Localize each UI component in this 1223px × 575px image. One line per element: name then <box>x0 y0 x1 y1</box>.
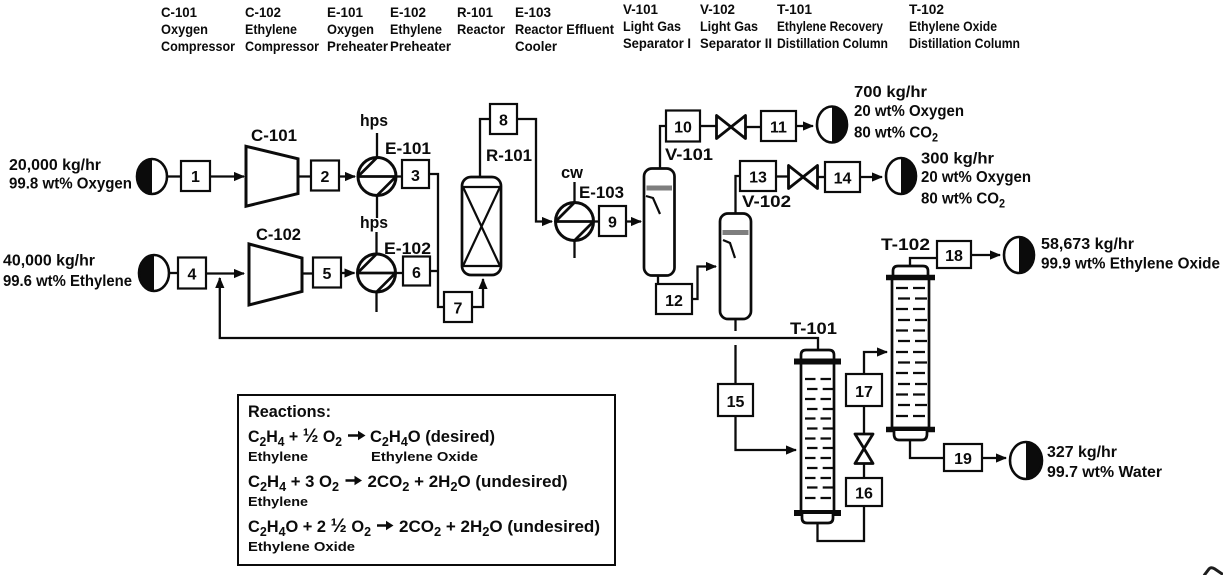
product stream circle 14 <box>886 158 916 194</box>
svg-text:Separator II: Separator II <box>700 35 772 51</box>
svg-text:cw: cw <box>561 164 583 182</box>
wire E-102 to box 6 <box>396 272 404 274</box>
heat exchanger E-103 <box>556 182 625 258</box>
svg-text:V-102: V-102 <box>742 193 791 211</box>
svg-text:R-101: R-101 <box>486 147 532 165</box>
wire box 4 to C-102 with arrow <box>206 272 244 274</box>
stream box 7 <box>444 292 472 322</box>
svg-text:Distillation Column: Distillation Column <box>909 35 1020 51</box>
heat exchanger E-102 <box>358 232 432 312</box>
wire box 14 to product circle with arrow <box>860 176 882 178</box>
wire box 6 to mix point <box>430 270 438 272</box>
product stream circle 18 <box>1004 237 1034 273</box>
svg-text:Light Gas: Light Gas <box>623 18 681 34</box>
heat exchanger E-101 <box>358 133 431 218</box>
svg-text:C-101: C-101 <box>251 127 297 145</box>
svg-text:Compressor: Compressor <box>161 38 235 54</box>
stream box 2 <box>311 161 339 191</box>
svg-text:99.8 wt% Oxygen: 99.8 wt% Oxygen <box>9 176 132 193</box>
svg-text:Preheater: Preheater <box>327 38 389 54</box>
wire feed circle to box 1 <box>167 175 181 177</box>
svg-text:20,000 kg/hr: 20,000 kg/hr <box>9 157 101 174</box>
svg-text:99.9 wt% Ethylene Oxide: 99.9 wt% Ethylene Oxide <box>1041 256 1220 273</box>
svg-text:17: 17 <box>855 384 873 401</box>
wire R-101 top to box 8 <box>480 119 490 177</box>
svg-text:16: 16 <box>855 486 873 503</box>
svg-text:58,673 kg/hr: 58,673 kg/hr <box>1041 236 1134 253</box>
stream box 13 <box>740 161 776 191</box>
svg-text:Cooler: Cooler <box>515 38 558 54</box>
svg-text:C-102: C-102 <box>245 4 281 20</box>
page corner mark bottom right <box>1204 568 1223 575</box>
wire T-102 top to box 18 <box>910 258 937 266</box>
wire E-103 to box 9 <box>594 220 600 222</box>
wire box 11 to product circle with arrow <box>796 125 813 127</box>
svg-text:19: 19 <box>954 451 972 468</box>
wire T-101 bottoms to box 16 <box>818 506 865 541</box>
svg-text:11: 11 <box>770 120 787 137</box>
feed stream symbol circle (ethylene feed) <box>139 255 169 291</box>
stream box 15 <box>718 384 753 416</box>
stream box 9 <box>599 206 626 236</box>
wire box 17 to T-102 feed with arrow <box>864 352 887 374</box>
svg-text:9: 9 <box>608 215 617 232</box>
wire V-102 bottom with crossing gap to box 15 <box>734 319 736 331</box>
svg-text:Compressor: Compressor <box>245 38 319 54</box>
svg-text:Ethylene Oxide: Ethylene Oxide <box>248 539 355 554</box>
svg-text:40,000 kg/hr: 40,000 kg/hr <box>3 253 95 270</box>
svg-text:Reactions:: Reactions: <box>248 403 331 421</box>
product stream circle 19 <box>1010 442 1042 479</box>
stream box 1 <box>181 161 210 191</box>
svg-text:C2H4O + 2 ½ O2: C2H4O + 2 ½ O2 <box>248 515 371 539</box>
wire feed circle to box 4 <box>169 272 178 274</box>
svg-text:hps: hps <box>360 112 388 130</box>
wire box 9 to V-101 with arrow <box>626 220 641 222</box>
wire box 16 to valve <box>863 464 865 478</box>
svg-text:Preheater: Preheater <box>390 38 452 54</box>
svg-text:E-102: E-102 <box>384 240 431 258</box>
svg-text:Reactor Effluent: Reactor Effluent <box>515 21 614 37</box>
svg-text:327 kg/hr: 327 kg/hr <box>1047 444 1117 461</box>
svg-text:3: 3 <box>411 168 420 185</box>
valve on stream 10-11 <box>717 116 746 139</box>
svg-text:V-101: V-101 <box>665 146 713 164</box>
wire box 12 to V-102 with arrow <box>692 267 716 300</box>
separator V-101 <box>644 146 713 276</box>
svg-text:2: 2 <box>321 169 330 186</box>
svg-text:C-101: C-101 <box>161 4 197 20</box>
stream box 18 <box>937 241 971 268</box>
stream box 5 <box>313 258 341 288</box>
feed stream symbol circle (oxygen feed) <box>137 159 167 194</box>
svg-text:Ethylene: Ethylene <box>245 21 297 37</box>
svg-text:18: 18 <box>945 248 963 265</box>
svg-text:V-101: V-101 <box>623 1 658 17</box>
svg-text:4: 4 <box>188 267 197 284</box>
stream box 14 <box>825 162 860 192</box>
feed 1 annotation text <box>9 157 132 193</box>
wire valve to box 14 <box>818 176 825 178</box>
wire box 15 to T-101 feed with arrow <box>736 416 797 450</box>
svg-text:T-101: T-101 <box>790 320 837 338</box>
reactor R-101 <box>462 147 532 275</box>
wire E-101 to box 3 <box>396 175 402 177</box>
wire box 7 to R-101 bottom with arrow <box>472 279 483 307</box>
stream box 16 <box>846 478 882 506</box>
wire V-102 top to box 13 <box>736 176 741 214</box>
svg-text:15: 15 <box>727 394 745 411</box>
feed 4 annotation text <box>3 253 132 291</box>
stream box 11 <box>761 111 796 141</box>
svg-text:20 wt% Oxygen: 20 wt% Oxygen <box>854 103 964 120</box>
svg-text:Ethylene Oxide: Ethylene Oxide <box>909 18 997 34</box>
stream box 17 <box>846 374 882 406</box>
wire box 18 to product circle with arrow <box>971 254 1000 256</box>
stream box 6 <box>403 257 430 286</box>
svg-text:Distillation Column: Distillation Column <box>777 35 888 51</box>
svg-text:80 wt% CO2: 80 wt% CO2 <box>854 125 938 145</box>
wire box 2 to E-101 with arrow <box>339 175 355 177</box>
header equipment legend row <box>161 1 1020 54</box>
svg-text:Ethylene: Ethylene <box>248 449 308 464</box>
stream box 4 <box>178 258 206 289</box>
svg-text:C-102: C-102 <box>256 226 301 244</box>
stream box 12 <box>656 284 692 314</box>
valve on stream 13-14 <box>789 166 818 189</box>
svg-text:Oxygen: Oxygen <box>161 21 208 37</box>
distillation column T-101 <box>790 320 841 523</box>
svg-text:8: 8 <box>499 113 508 130</box>
svg-text:700 kg/hr: 700 kg/hr <box>854 84 927 101</box>
svg-text:2CO2 + 2H2O (undesired): 2CO2 + 2H2O (undesired) <box>399 518 600 539</box>
svg-text:5: 5 <box>323 266 332 283</box>
reactions information box <box>238 395 615 565</box>
wire valve to box 17 <box>863 406 865 434</box>
product 19 annotation text <box>1047 444 1162 481</box>
wire box 8 to E-103 with arrow <box>517 119 552 222</box>
svg-text:E-103: E-103 <box>579 184 624 202</box>
svg-text:T-101: T-101 <box>777 1 812 17</box>
svg-text:Light Gas: Light Gas <box>700 18 758 34</box>
svg-text:13: 13 <box>749 170 767 187</box>
wire box 1 to C-101 with arrow <box>210 175 244 177</box>
wire C-101 to box 2 <box>298 175 311 177</box>
svg-text:99.6 wt% Ethylene: 99.6 wt% Ethylene <box>3 273 132 290</box>
svg-text:10: 10 <box>674 120 692 137</box>
wire valve to box 11 <box>746 126 761 128</box>
wire V-101 bottom to box 12 <box>657 276 659 285</box>
wire V-101 top to box 10 <box>660 126 666 169</box>
compressor C-101 <box>246 127 298 206</box>
svg-text:300 kg/hr: 300 kg/hr <box>921 151 994 168</box>
svg-text:6: 6 <box>412 265 421 282</box>
wire C-102 to box 5 <box>302 272 313 274</box>
svg-text:80 wt% CO2: 80 wt% CO2 <box>921 191 1005 211</box>
svg-text:C2H4O (desired): C2H4O (desired) <box>370 428 495 449</box>
stream box 8 <box>490 104 517 134</box>
distillation column T-102 <box>881 236 935 440</box>
svg-text:2CO2 + 2H2O (undesired): 2CO2 + 2H2O (undesired) <box>368 473 568 494</box>
svg-text:R-101: R-101 <box>457 4 493 20</box>
stream box 10 <box>666 111 700 142</box>
stream box 19 <box>944 444 982 471</box>
svg-text:1: 1 <box>191 169 200 186</box>
svg-text:Ethylene: Ethylene <box>390 21 442 37</box>
wire box 3 down to mix point <box>429 174 444 307</box>
svg-text:99.7 wt% Water: 99.7 wt% Water <box>1047 464 1162 481</box>
svg-text:12: 12 <box>665 293 683 310</box>
svg-text:Ethylene Recovery: Ethylene Recovery <box>777 18 883 34</box>
stream box 3 <box>402 160 429 188</box>
svg-text:14: 14 <box>834 171 852 188</box>
wire T-102 bottoms to box 19 <box>910 440 944 458</box>
svg-text:20 wt% Oxygen: 20 wt% Oxygen <box>921 169 1031 186</box>
product 11 annotation text <box>854 84 964 145</box>
svg-text:7: 7 <box>454 301 463 318</box>
valve on stream 16-17 <box>855 434 873 464</box>
svg-text:T-102: T-102 <box>881 236 930 254</box>
svg-text:Ethylene: Ethylene <box>248 494 308 509</box>
wire box 5 to E-102 with arrow <box>341 272 355 274</box>
compressor C-102 <box>249 226 302 305</box>
svg-text:E-103: E-103 <box>515 4 551 20</box>
svg-text:T-102: T-102 <box>909 1 944 17</box>
svg-text:V-102: V-102 <box>700 1 735 17</box>
svg-text:E-101: E-101 <box>385 140 431 158</box>
svg-text:E-102: E-102 <box>390 4 426 20</box>
product 14 annotation text <box>921 151 1031 211</box>
product 18 annotation text <box>1041 236 1220 273</box>
separator V-102 <box>720 193 791 319</box>
product stream circle 11 <box>817 107 847 143</box>
wire box 10 to valve <box>700 125 716 127</box>
wire box 19 to product circle with arrow <box>982 457 1006 459</box>
recycle wire from T-101 overhead joining feed 4 <box>220 278 818 350</box>
svg-text:hps: hps <box>360 214 388 232</box>
svg-text:Reactor: Reactor <box>457 21 505 37</box>
svg-text:Separator I: Separator I <box>623 35 691 51</box>
svg-text:Oxygen: Oxygen <box>327 21 374 37</box>
svg-text:E-101: E-101 <box>327 4 363 20</box>
wire box 13 to valve <box>776 175 788 177</box>
svg-text:Ethylene Oxide: Ethylene Oxide <box>371 449 478 464</box>
